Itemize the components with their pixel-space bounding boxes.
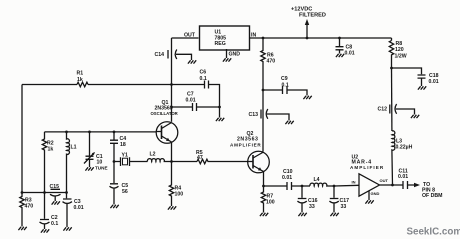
svg-text:470: 470 [267, 59, 276, 65]
node: C4 tap on base rail [113, 131, 116, 134]
svg-text:0.1: 0.1 [51, 221, 58, 227]
wire: top-left horizontal from left column to node A [22, 84, 172, 86]
node: L1 / C3 junction [65, 191, 68, 194]
wire: C18 branch [392, 68, 422, 74]
resistor R8 [389, 41, 393, 69]
svg-text:AMPLIFIER: AMPLIFIER [350, 165, 384, 170]
wire: U1 GND pin [226, 49, 228, 58]
svg-text:0.01: 0.01 [186, 98, 196, 104]
node: emitter / R7 / C10 junction [262, 185, 265, 188]
wire: bottom-left bus [22, 192, 67, 194]
capacitor C4 [110, 132, 118, 162]
capacitor C15 [50, 189, 61, 201]
node: left column / R3 junction [21, 191, 24, 194]
node: Y1 / C5 junction [113, 160, 116, 163]
node: C6/C7 junction [218, 106, 221, 109]
transistor Q2 2N3563 amplifier [248, 151, 270, 173]
output arrow [414, 183, 420, 187]
node: C18 tap [390, 67, 393, 70]
svg-text:OSCILLATOR: OSCILLATOR [151, 111, 178, 116]
svg-text:GND: GND [371, 191, 380, 196]
ground (C13) [285, 121, 293, 124]
svg-text:1k: 1k [77, 77, 83, 83]
capacitor C2 [40, 193, 50, 230]
ground (R4) [168, 206, 176, 209]
wire: Q2 emitter down [263, 172, 265, 187]
capacitor C9 [283, 86, 288, 94]
capacitor C14 [168, 50, 177, 60]
svg-text:L4: L4 [314, 177, 320, 183]
svg-text:100: 100 [175, 192, 184, 198]
svg-text:0.01: 0.01 [398, 174, 408, 180]
capacitor C12 [390, 104, 397, 114]
wire: C9 branch [263, 90, 307, 96]
capacitor C7 [193, 103, 197, 111]
wire: R8/L3 bias column [391, 38, 393, 41]
ground (C14) [188, 60, 196, 63]
capacitor C10 [287, 182, 292, 190]
svg-text:0.01: 0.01 [74, 205, 84, 211]
wire: +12V rail from U1 IN to R8 [249, 37, 392, 39]
IC U1 7805 regulator box [200, 26, 250, 50]
svg-text:18: 18 [120, 142, 126, 148]
wire: C14 to ground [176, 54, 192, 60]
svg-text:C14: C14 [155, 52, 165, 58]
wire: C12 to ground [396, 109, 415, 115]
svg-text:OUT: OUT [184, 33, 196, 39]
node: emitter junction (Y1/L2/R4/R5) [170, 160, 173, 163]
wire: U2 output to C11 [380, 184, 415, 186]
resistor R3 [20, 193, 24, 227]
wire: +5V vertical line (U1 OUT to Q1 collector) [171, 38, 173, 122]
variable capacitor C1 [86, 132, 94, 167]
svg-text:1/2W: 1/2W [395, 54, 407, 60]
wire: Q1 emitter to node [171, 142, 173, 162]
power arrow +12VDC FILTERED [306, 23, 308, 38]
capacitor C6 [205, 81, 209, 89]
ground (U1) [223, 58, 231, 61]
ground (C18) [418, 86, 426, 89]
svg-text:1k: 1k [48, 147, 54, 153]
wire: U1 OUT lead [172, 37, 199, 39]
node: C17 tap [333, 185, 336, 188]
wire: C7 branch [172, 107, 220, 118]
wire: L4 segment [302, 185, 310, 187]
svg-text:100: 100 [266, 200, 275, 206]
svg-text:470: 470 [25, 204, 34, 210]
amplifier U2 MAR-4 [359, 174, 380, 196]
ground (C2) [41, 229, 49, 232]
node: +12VDC arrow tap [306, 37, 309, 40]
wire: C18 junction down to L3 [391, 68, 393, 131]
svg-text:AMPLIFIER: AMPLIFIER [230, 143, 262, 148]
svg-text:0.01: 0.01 [345, 51, 355, 57]
ground (U2) [365, 200, 373, 203]
node: C1 tap on base rail [88, 131, 91, 134]
ground (C6/C7) [216, 118, 224, 121]
ground (C9) [303, 96, 311, 99]
inductor L4 [310, 183, 334, 186]
inductor L3 [392, 131, 395, 185]
svg-text:120: 120 [395, 47, 404, 53]
ground (C8) [336, 54, 344, 57]
wire: emitter node to R5 [172, 161, 198, 163]
wire: U2 ground stub [368, 191, 370, 200]
svg-text:47: 47 [197, 155, 203, 161]
capacitor C18 [418, 75, 426, 86]
resistor R5 [197, 159, 248, 164]
svg-text:TUNE: TUNE [95, 166, 108, 171]
svg-text:REG: REG [215, 41, 226, 47]
svg-text:Y1: Y1 [122, 153, 128, 159]
resistor R2 [42, 132, 46, 193]
svg-text:0.1: 0.1 [282, 83, 289, 89]
svg-text:OF DBM: OF DBM [422, 193, 442, 199]
wire: C6 branch [172, 85, 220, 108]
ground (C3) [63, 227, 71, 230]
svg-text:IN: IN [352, 180, 356, 185]
svg-text:L1: L1 [71, 145, 77, 151]
svg-text:C9: C9 [281, 76, 288, 82]
ground (C15) [52, 201, 60, 204]
node: R6 tap on +12V rail [262, 37, 265, 40]
svg-text:0.01: 0.01 [429, 79, 439, 85]
svg-text:C13: C13 [249, 112, 259, 118]
capacitor C8 [336, 38, 344, 54]
resistor R4 [169, 162, 173, 207]
svg-text:33: 33 [341, 204, 347, 210]
wire: output chain C10 segment [264, 185, 303, 187]
resistor R7 [261, 186, 265, 213]
capacitor C13 [261, 109, 268, 119]
node: R2 / C2 junction [43, 191, 46, 194]
ground (C16) [298, 213, 306, 216]
ground (C5) [110, 205, 118, 208]
wire: C13 to ground [267, 114, 289, 121]
node: junction C7 tap [170, 106, 173, 109]
capacitor C16 [297, 186, 306, 213]
ground (R3) [18, 227, 26, 230]
capacitor C11 [403, 181, 408, 189]
ground (C12) [411, 115, 419, 118]
svg-text:R1: R1 [77, 71, 84, 77]
ground (C1) [85, 167, 93, 170]
node: L3 feed junction [391, 184, 394, 187]
transistor Q1 2N3563 oscillator [156, 122, 178, 144]
svg-text:FILTERED: FILTERED [299, 13, 326, 19]
crystal Y1 [114, 157, 148, 166]
svg-text:GND: GND [229, 52, 241, 58]
inductor L2 [147, 159, 171, 162]
svg-text:C6: C6 [200, 70, 207, 76]
svg-text:L2: L2 [150, 152, 156, 158]
node: junction R1 / C6 node [170, 83, 173, 86]
node: L1 tap on base rail [65, 131, 68, 134]
node: C16 tap [301, 185, 304, 188]
inductor L1 [67, 132, 70, 193]
wire: Q2 collector line [262, 90, 264, 152]
svg-text:SeekIC.com: SeekIC.com [407, 227, 460, 238]
capacitor C17 [329, 186, 338, 213]
svg-text:0.01: 0.01 [282, 175, 292, 181]
node: C8 tap [338, 37, 341, 40]
node: C9 tap [262, 89, 265, 92]
svg-text:0.1: 0.1 [200, 76, 207, 82]
wire: base rail of Q1 [45, 131, 157, 133]
ground (C17) [330, 213, 338, 216]
ground (R7) [260, 213, 268, 216]
capacitor C3 [63, 193, 73, 228]
resistor R6 [261, 38, 265, 90]
svg-text:OUT: OUT [380, 178, 389, 183]
wire: to U2 input [334, 184, 359, 187]
capacitor C5 [110, 162, 119, 205]
svg-text:0.22µH: 0.22µH [396, 145, 413, 151]
svg-text:33: 33 [309, 204, 315, 210]
wire: left column vertical [21, 85, 23, 193]
svg-text:C12: C12 [378, 107, 388, 113]
svg-text:C15: C15 [50, 184, 60, 190]
resistor R1 [77, 82, 88, 87]
svg-text:56: 56 [122, 189, 128, 195]
